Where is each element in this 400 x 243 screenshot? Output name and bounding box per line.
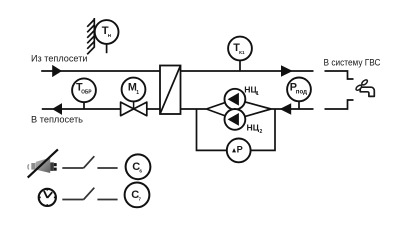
pump NC2 (225, 109, 246, 130)
svg-text:К1: К1 (239, 50, 245, 55)
label NC1 (244, 85, 259, 97)
valve actuator M1 (122, 78, 146, 109)
supply pipe (41, 70, 313, 72)
sensor TK1 (228, 37, 252, 71)
svg-text:НЦ: НЦ (247, 123, 260, 133)
heat exchanger (160, 66, 181, 115)
label NC2 (247, 123, 263, 136)
sensor RPOD (supply pressure) (287, 78, 311, 110)
flow arrow (supply, right) (281, 65, 293, 77)
svg-text:Р: Р (237, 145, 243, 155)
indicator C7 (125, 183, 150, 208)
svg-text:1: 1 (136, 90, 139, 96)
sensor TH (outdoor temperature) (95, 20, 119, 53)
switch contact (sound row) (62, 156, 117, 168)
control valve (121, 102, 147, 116)
svg-text:В систему ГВС: В систему ГВС (324, 58, 381, 68)
switch contact (clock row) (62, 188, 117, 200)
svg-text:1: 1 (256, 91, 259, 97)
muted speaker icon (28, 149, 58, 177)
indicator C6 (126, 154, 151, 179)
pump NC1 (225, 89, 246, 110)
flow arrow (return, right) (280, 103, 292, 114)
svg-text:под: под (296, 89, 307, 95)
sensor TOBR (return temperature) (72, 78, 96, 109)
flow arrow (return, left) (52, 103, 62, 115)
pump branch lines (206, 99, 271, 119)
dP sensor loop (197, 109, 276, 150)
svg-text:2: 2 (260, 129, 263, 135)
clock icon (39, 189, 56, 206)
return pipe (42, 108, 314, 110)
flow arrow (supply, left) (52, 65, 62, 77)
faucet icon (355, 79, 374, 97)
svg-text:Из теплосети: Из теплосети (31, 54, 88, 64)
svg-text:В теплосеть: В теплосеть (31, 115, 83, 125)
sensor dP (differential pressure) (227, 139, 251, 163)
boundary step upper (to DHW system) (325, 71, 354, 79)
svg-text:6: 6 (139, 169, 142, 174)
wall mount (outdoor sensor) (87, 18, 94, 54)
svg-text:7: 7 (138, 197, 141, 202)
svg-text:ОБР: ОБР (81, 90, 91, 96)
boundary step lower (from DHW system) (325, 100, 354, 109)
